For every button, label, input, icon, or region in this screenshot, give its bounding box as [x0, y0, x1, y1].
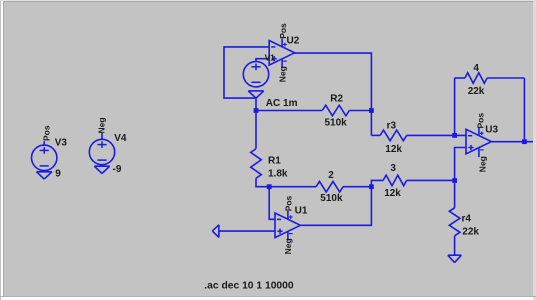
wire V3 top stub — [43, 141, 45, 145]
svg-text:AC 1m: AC 1m — [266, 98, 298, 109]
ground (V4) — [94, 165, 109, 167]
wire r3 right — [407, 134, 466, 136]
svg-text:12k: 12k — [385, 144, 402, 155]
wire U1 out — [300, 187, 371, 226]
svg-text:Neg: Neg — [278, 66, 288, 82]
svg-text:V1: V1 — [265, 53, 276, 63]
svg-text:12k: 12k — [384, 188, 401, 199]
node G — [452, 178, 457, 183]
op-amp U3 — [466, 129, 491, 154]
ground (V3) — [37, 171, 52, 173]
svg-text:V3: V3 — [55, 137, 68, 148]
wire U3 +in stub — [455, 148, 466, 181]
op-amp U2 — [269, 41, 294, 66]
ground (U1 +in) — [218, 225, 220, 238]
wire res3 jog — [371, 180, 383, 186]
wire U1 +in — [219, 230, 275, 232]
voltage source V1 — [243, 61, 268, 86]
wire V1 gnd to node A — [255, 98, 257, 110]
wire row2 left — [269, 186, 316, 188]
wire U2 +in to V1 — [256, 59, 269, 62]
svg-text:Pos: Pos — [476, 113, 486, 129]
node A — [254, 108, 259, 113]
node F — [369, 184, 374, 189]
wire r4 bottom — [454, 236, 456, 255]
resistor 3 — [383, 175, 407, 186]
wire row A right — [349, 110, 371, 112]
svg-text:3: 3 — [390, 163, 396, 174]
svg-text:r4: r4 — [462, 213, 472, 224]
resistor R2 — [322, 105, 349, 116]
resistor 4 — [465, 73, 487, 84]
node B — [369, 108, 374, 113]
svg-text:Pos: Pos — [278, 23, 288, 39]
node D — [522, 139, 527, 144]
svg-text:Neg: Neg — [478, 156, 488, 172]
svg-text:U2: U2 — [287, 35, 300, 46]
wire U2 out — [294, 53, 371, 135]
wire U1 -in — [269, 187, 275, 220]
ground (r4) — [448, 254, 462, 256]
wire U2 feedback loop — [224, 47, 269, 98]
wire node A to R1 — [255, 111, 257, 149]
svg-text:510k: 510k — [325, 118, 348, 129]
svg-text:22k: 22k — [468, 86, 485, 97]
wire r4 top — [454, 181, 456, 208]
svg-text:2: 2 — [328, 170, 334, 181]
node E — [267, 184, 272, 189]
wire res4 left vertical — [454, 78, 456, 135]
wire R1 bottom — [256, 178, 269, 186]
resistor R1 — [251, 149, 262, 179]
ground (V1) — [248, 90, 263, 92]
svg-text:r3: r3 — [387, 121, 397, 132]
svg-text:9: 9 — [55, 168, 61, 179]
svg-text:510k: 510k — [320, 193, 343, 204]
svg-text:1.8k: 1.8k — [268, 169, 288, 180]
wire res4 top left — [455, 77, 465, 79]
resistor r4 — [449, 208, 460, 236]
svg-text:Neg: Neg — [97, 117, 107, 133]
svg-text:Pos: Pos — [283, 195, 293, 211]
svg-text:-9: -9 — [113, 164, 122, 175]
wire V4 top stub — [101, 133, 103, 140]
voltage source V3 — [32, 145, 57, 170]
voltage source V4 — [89, 139, 114, 164]
svg-text:U1: U1 — [295, 206, 308, 217]
svg-text:.ac dec 10 1 10000: .ac dec 10 1 10000 — [204, 280, 294, 291]
op-amp U1 — [275, 213, 300, 238]
svg-text:R1: R1 — [268, 155, 281, 166]
wire res3 right — [407, 179, 455, 181]
resistor 2 — [316, 181, 343, 192]
wire res4 right vertical — [523, 78, 525, 142]
wire row A left — [256, 110, 322, 112]
svg-text:V4: V4 — [114, 133, 127, 144]
wire res4 top right — [487, 77, 524, 79]
wire row2 right — [343, 186, 371, 188]
svg-text:Pos: Pos — [41, 125, 51, 141]
resistor r3 — [380, 130, 407, 141]
svg-text:R2: R2 — [330, 93, 343, 104]
svg-text:4: 4 — [473, 63, 479, 74]
node C — [452, 133, 457, 138]
wire r3 left — [371, 134, 380, 136]
svg-text:Neg: Neg — [283, 238, 293, 254]
svg-text:22k: 22k — [462, 226, 479, 237]
wire U3 out — [491, 141, 533, 143]
svg-text:U3: U3 — [485, 125, 498, 136]
